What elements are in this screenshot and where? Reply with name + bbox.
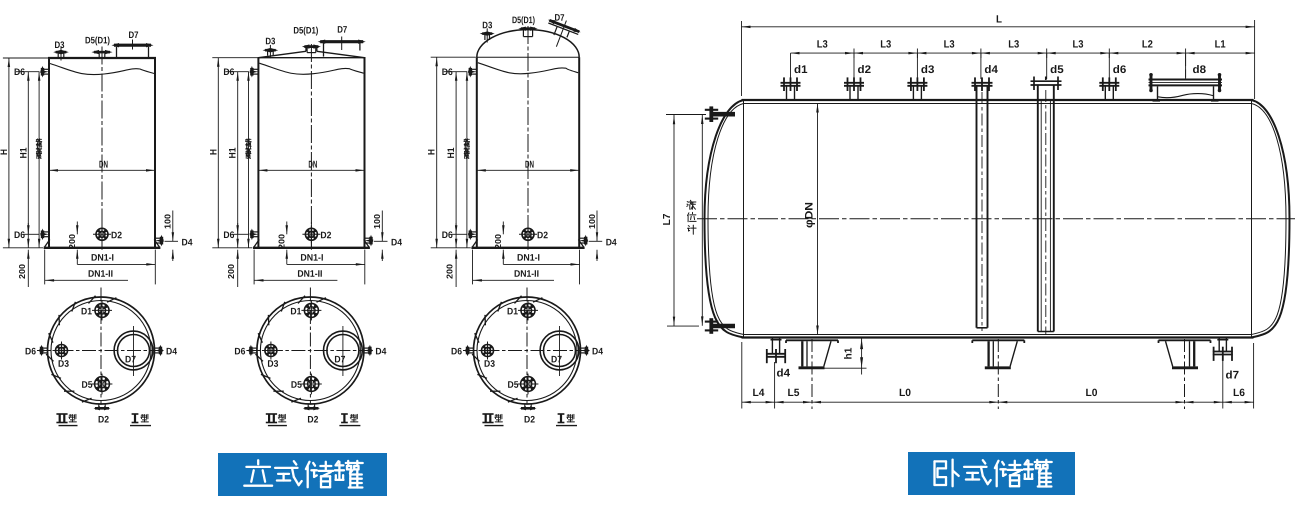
tank3 dim 200 left: [445, 223, 458, 287]
tank3 dome head: [477, 30, 579, 58]
tank1 liquid level line: [50, 64, 154, 75]
svg-text:D2: D2: [307, 414, 318, 425]
tank1 label D5(D1): [85, 35, 110, 46]
hz-tank seam right: [1251, 100, 1253, 338]
svg-text:d2: d2: [857, 64, 871, 76]
tank3 dim DN1-I: [503, 253, 579, 266]
svg-text:H1: H1: [18, 147, 29, 159]
hz-tank label d5: [1050, 64, 1064, 76]
tank1 label D6 lower: [14, 230, 25, 241]
tank2 nozzle D3: [263, 45, 279, 58]
tank2 plan label D2: [307, 414, 318, 425]
svg-text:D1: D1: [507, 306, 519, 317]
tank2 leader D6 upper: [225, 71, 249, 73]
tank1 plan label D1: [81, 306, 93, 317]
hz-tank dim extension lines to nozzles: [791, 53, 1186, 79]
tank2 centreline: [310, 44, 312, 250]
svg-text:d1: d1: [794, 64, 808, 76]
tank1 dim 200 left: [17, 223, 30, 287]
hz-tank shell top: [742, 100, 1254, 104]
tank3 nozzle D2: [519, 222, 537, 247]
hz-tank dim L7: [662, 115, 675, 326]
tank2 nozzle D4: [365, 235, 374, 247]
tank1 nozzle D5(D1): [92, 50, 113, 58]
tank3 filling-height text: [464, 139, 470, 159]
hz-tank seam left: [743, 100, 745, 338]
caption vertical storage tank: [218, 453, 387, 496]
tank1 label D7: [128, 30, 138, 41]
svg-text:DN1-I: DN1-I: [300, 253, 323, 264]
svg-text:100: 100: [587, 214, 597, 229]
svg-text:D5: D5: [507, 380, 519, 391]
svg-text:D7: D7: [334, 354, 345, 365]
hz-tank dim L: [742, 13, 1255, 28]
tank2 plan label D7: [334, 354, 345, 365]
tank1 plan nozzle D4: [155, 345, 163, 357]
hz-tank label L5: [787, 387, 799, 399]
svg-text:H: H: [0, 149, 10, 155]
tank1 label D6 upper: [14, 67, 25, 78]
tank2 dim H extension lines: [212, 58, 257, 248]
hz-tank left head: [705, 100, 744, 338]
tank1 dim DN1-II: [45, 269, 128, 282]
tank2 bottom skirt: [253, 240, 370, 248]
svg-text:DN: DN: [99, 160, 108, 171]
hz-tank nozzle d5 flange: [1031, 77, 1062, 91]
hz-tank nozzle d3: [907, 77, 927, 100]
tank3 plan shell: [474, 297, 581, 404]
tank2 shell walls: [258, 58, 364, 248]
svg-text:L3: L3: [944, 38, 955, 50]
tank1 plan label D5: [81, 380, 93, 391]
tank1 plan nozzle D6: [39, 345, 47, 357]
tank1 filling-height text: [36, 139, 42, 159]
hz-tank dim L extension lines: [742, 20, 1255, 99]
tank2 manhole D7: [318, 37, 366, 57]
svg-text:D4: D4: [166, 346, 178, 357]
tank1 dim extension lines bottom: [45, 250, 156, 285]
svg-text:D6: D6: [442, 67, 453, 78]
svg-text:D2: D2: [111, 230, 122, 241]
tank1 plan nozzle D2: [94, 404, 111, 411]
tank3 dim DN: [477, 160, 579, 172]
svg-text:L2: L2: [1142, 38, 1153, 50]
svg-text:D7: D7: [125, 354, 136, 365]
tank2 plan nozzle D6: [249, 345, 257, 357]
svg-text:L3: L3: [1072, 38, 1083, 50]
tank1 plan manhole D7: [114, 326, 153, 376]
svg-text:200: 200: [445, 264, 455, 279]
tank3 liquid level line: [478, 63, 578, 74]
svg-text:d4: d4: [776, 368, 790, 380]
tank1 label D3: [54, 40, 64, 51]
svg-text:L5: L5: [787, 387, 799, 399]
svg-text:d5: d5: [1050, 64, 1064, 76]
tank2 label D5(D1): [293, 25, 318, 36]
svg-text:DN1-II: DN1-II: [514, 269, 539, 280]
tank3 centreline: [527, 26, 529, 250]
tank1 manhole D7: [112, 40, 154, 59]
svg-text:L3: L3: [1008, 38, 1019, 50]
tank3 dim H1: [446, 72, 457, 248]
tank3 nozzle D6 lower: [468, 229, 477, 241]
tank2 label D7: [337, 25, 347, 36]
tank3 leader D6 lower: [452, 233, 468, 235]
tank1 nozzle D2: [93, 222, 111, 247]
tank1 nozzle D4: [155, 235, 164, 247]
tank1 dim H extension lines: [3, 58, 48, 248]
svg-text:DN1-II: DN1-II: [88, 269, 113, 280]
svg-text:D1: D1: [81, 306, 93, 317]
svg-text:D6: D6: [14, 230, 25, 241]
tank3 plan nozzle D6: [465, 345, 473, 357]
tank1 dim filling-height line: [38, 72, 41, 248]
tank1 plan label D3: [58, 359, 69, 370]
tank2 dim filling-height line: [247, 72, 250, 248]
tank2 label D6 upper: [223, 67, 234, 78]
hz-tank shell bottom: [742, 335, 1254, 338]
tank2 plan centrelines: [246, 288, 373, 404]
tank1 nozzle D3: [53, 47, 69, 61]
hz-tank dip pipe at d5: [1038, 85, 1054, 334]
svg-text:H1: H1: [228, 147, 239, 159]
svg-text:D2: D2: [524, 414, 535, 425]
hz-tank dip pipe at d4: [977, 86, 988, 331]
tank2 plan label D3: [267, 359, 278, 370]
hz-tank right head: [1252, 100, 1290, 338]
svg-text:D5(D1): D5(D1): [85, 35, 110, 46]
tank2 plan manhole D7: [324, 326, 363, 376]
tank2 label D2: [320, 230, 331, 241]
hz-tank dim phiDN: [804, 104, 819, 335]
tank1 plan label D7: [125, 354, 136, 365]
svg-text:D4: D4: [606, 237, 618, 248]
tank1 dim DN1-I: [77, 253, 155, 266]
tank3 label type I: [556, 414, 577, 426]
tank3 plan label D7: [551, 354, 562, 365]
tank1 leader D4: [165, 240, 179, 242]
hz-tank saddle leg 3: [1159, 339, 1211, 409]
tank1 plan shell ticks: [46, 296, 116, 402]
svg-text:d6: d6: [1113, 64, 1127, 76]
tank1 dim 100: [163, 211, 175, 262]
tank2 liquid level line: [259, 63, 363, 74]
svg-text:L0: L0: [1085, 387, 1097, 399]
svg-text:100: 100: [163, 214, 173, 229]
tank3 plan nozzle D5: [518, 374, 539, 395]
svg-text:D3: D3: [484, 359, 495, 370]
svg-text:DN1-II: DN1-II: [297, 269, 322, 280]
svg-text:200: 200: [67, 234, 77, 249]
hz-tank label d2: [857, 64, 871, 76]
hz-tank axis centreline: [697, 218, 1295, 220]
tank2 nozzle D6 lower: [250, 229, 259, 241]
tank2 filling-height text: [246, 139, 252, 159]
tank3 plan shell ticks: [472, 296, 542, 402]
tank3 dim extension lines bottom: [473, 250, 580, 285]
tank3 plan manhole D7: [540, 326, 579, 376]
tank2 leader D6 lower: [233, 233, 249, 235]
svg-text:D6: D6: [223, 230, 234, 241]
tank3 label D5(D1): [512, 15, 535, 26]
svg-text:D3: D3: [265, 36, 275, 47]
svg-text:D7: D7: [554, 13, 564, 24]
tank2 leader D4: [374, 240, 388, 242]
svg-text:200: 200: [226, 264, 236, 279]
tank3 label D3: [482, 20, 492, 31]
svg-text:D7: D7: [551, 354, 562, 365]
svg-text:D7: D7: [128, 30, 138, 41]
svg-text:d3: d3: [921, 64, 935, 76]
svg-text:L1: L1: [1215, 38, 1226, 50]
tank3 dim DN1-II: [473, 269, 554, 282]
tank1 dim H1: [18, 72, 29, 248]
svg-text:D3: D3: [267, 359, 278, 370]
svg-text:L0: L0: [899, 387, 911, 399]
tank1 plan centrelines: [37, 288, 164, 404]
tank2 nozzle D5(D1): [302, 44, 321, 52]
tank1 plan label D4: [166, 346, 178, 357]
hz-tank label d8: [1192, 64, 1206, 76]
tank2 plan nozzle D4: [364, 345, 372, 357]
tank3 dim H: [427, 57, 438, 248]
svg-text:D6: D6: [25, 346, 36, 357]
svg-text:D3: D3: [482, 20, 492, 31]
tank2 plan nozzle D1: [301, 300, 321, 320]
svg-text:L6: L6: [1233, 387, 1245, 399]
svg-text:D2: D2: [537, 230, 548, 241]
tank1 nozzle D6 lower: [40, 229, 49, 241]
svg-text:L4: L4: [752, 387, 764, 399]
hz-tank level gauge tap lower: [705, 318, 735, 334]
tank3 dim H extension lines: [431, 57, 476, 248]
hz-tank manhole d8: [1149, 58, 1223, 101]
tank3 dim 100: [587, 211, 598, 262]
svg-text:D6: D6: [14, 67, 25, 78]
tank3 nozzle D3: [480, 28, 495, 42]
svg-text:D6: D6: [442, 230, 453, 241]
svg-text:d7: d7: [1225, 370, 1239, 382]
svg-text:100: 100: [372, 214, 382, 229]
svg-text:H: H: [208, 149, 219, 155]
svg-text:D6: D6: [234, 346, 245, 357]
tank3 label D6 upper: [442, 67, 453, 78]
tank3 plan label D4: [592, 346, 604, 357]
tank1 plan label D2: [98, 414, 109, 425]
tank2 dim DN: [258, 160, 364, 172]
tank2 plan nozzle D3: [262, 342, 280, 360]
tank2 plan label D4: [375, 346, 387, 357]
svg-text:D1: D1: [290, 306, 302, 317]
tank2 dim DN1-I: [287, 253, 365, 266]
tank3 shell walls: [477, 57, 579, 248]
tank3 plan centrelines: [463, 288, 590, 404]
svg-text:DN1-I: DN1-I: [91, 253, 114, 264]
svg-text:h1: h1: [844, 347, 855, 359]
hz-tank label L6: [1233, 387, 1245, 399]
tank2 label D4: [391, 237, 403, 248]
svg-text:D6: D6: [451, 346, 462, 357]
svg-text:D7: D7: [337, 25, 347, 36]
tank3 label D6 lower: [442, 230, 453, 241]
svg-text:L3: L3: [817, 38, 828, 50]
svg-text:H1: H1: [446, 147, 457, 159]
svg-text:L7: L7: [662, 213, 673, 225]
tank3 bottom skirt: [471, 240, 584, 248]
hz-tank saddle leg 2: [972, 339, 1024, 409]
hz-tank dim level gauge: [701, 115, 704, 326]
svg-text:DN: DN: [525, 160, 534, 171]
hz-tank dim h1: [824, 338, 867, 374]
tank1 label type II: [56, 414, 77, 426]
tank2 plan shell: [257, 297, 364, 404]
tank1 plan nozzle D5: [92, 374, 113, 395]
tank3 label D4: [606, 237, 618, 248]
tank3 plan nozzle D2: [520, 404, 537, 411]
hz-tank level gauge text: [687, 200, 696, 234]
svg-text:D3: D3: [58, 359, 69, 370]
svg-text:D2: D2: [320, 230, 331, 241]
tank2 dim 200 at D2: [277, 222, 288, 265]
tank3 leader D4: [589, 240, 603, 242]
hz-tank bottom nozzle d7: [1213, 338, 1233, 361]
svg-text:D5: D5: [81, 380, 93, 391]
tank3 plan nozzle D3: [479, 342, 497, 360]
tank1 dim H: [0, 58, 10, 248]
svg-text:φDN: φDN: [804, 202, 816, 228]
tank2 label type II: [266, 414, 287, 426]
tank3 dim filling-height line: [466, 72, 469, 248]
hz-tank nozzle d2: [844, 77, 864, 100]
tank2 dim H1: [228, 72, 239, 248]
tank3 plan label D3: [484, 359, 495, 370]
svg-text:D5(D1): D5(D1): [293, 25, 318, 36]
tank2 plan label D1: [290, 306, 302, 317]
tank3 label type II: [482, 414, 503, 426]
tank2 plan nozzle D2: [303, 404, 320, 411]
hz-tank level gauge tap upper: [705, 106, 735, 122]
tank3 dim 200 at D2: [493, 222, 504, 265]
svg-text:L3: L3: [880, 38, 891, 50]
svg-text:D6: D6: [223, 67, 234, 78]
tank2 label D6 lower: [223, 230, 234, 241]
svg-text:DN: DN: [308, 160, 317, 171]
tank1 leader D6 lower: [24, 233, 40, 235]
hz-tank nozzle d6: [1099, 77, 1119, 100]
svg-text:D4: D4: [391, 237, 403, 248]
tank1 label D4: [181, 237, 193, 248]
tank3 leader D6 upper: [444, 71, 468, 73]
tank2 dim 100: [372, 211, 384, 262]
tank1 dim 200 at D2: [67, 222, 78, 265]
tank1 plan nozzle D1: [92, 300, 112, 320]
hz-tank nozzle d1: [781, 77, 801, 100]
tank1 shell walls: [48, 58, 156, 248]
hz-tank label d6: [1113, 64, 1127, 76]
tank2 dim DN1-II: [255, 269, 338, 282]
tank1 plan label D6: [25, 346, 36, 357]
hz-tank saddle leg 1: [786, 339, 838, 409]
hz-tank label L4: [752, 387, 764, 399]
hz-tank bottom extension lines: [742, 342, 1254, 409]
svg-text:L: L: [996, 13, 1003, 25]
tank1 dim DN: [49, 160, 155, 172]
tank3 nozzle D7 (inclined): [540, 14, 583, 53]
tank2 cone roof: [257, 48, 365, 58]
svg-text:D3: D3: [54, 40, 64, 51]
svg-text:D5: D5: [291, 380, 303, 391]
tank3 plan label D5: [507, 380, 519, 391]
hz-tank bottom dim chain: [742, 401, 1254, 404]
tank2 plan shell ticks: [256, 296, 326, 402]
hz-tank label d1: [794, 64, 808, 76]
caption horizontal storage tank: [908, 452, 1075, 495]
svg-text:d8: d8: [1192, 64, 1206, 76]
tank3 label D7: [554, 13, 564, 24]
tank1 nozzle D6 upper: [40, 66, 49, 78]
tank1 label type I: [130, 414, 151, 426]
svg-text:d4: d4: [984, 64, 998, 76]
tank2 nozzle D6 upper: [250, 66, 259, 78]
svg-text:D4: D4: [592, 346, 604, 357]
hz-tank label d7: [1225, 370, 1239, 382]
tank3 plan nozzle D4: [581, 345, 589, 357]
tank3 plan label D2: [524, 414, 535, 425]
tank1 bottom skirt: [44, 240, 161, 248]
tank2 plan nozzle D5: [301, 374, 322, 395]
tank3 label D2: [537, 230, 548, 241]
tank2 dim extension lines bottom: [254, 250, 365, 285]
tank2 nozzle D2: [302, 222, 320, 247]
hz-tank nozzle d4 flange: [972, 77, 993, 100]
svg-text:D4: D4: [375, 346, 387, 357]
hz-tank bottom nozzle d4 drain: [766, 338, 786, 364]
hz-tank dim L7 extension lines: [666, 115, 706, 327]
tank2 label type I: [339, 414, 360, 426]
hz-tank label L0: [1085, 387, 1097, 399]
tank1 centreline: [101, 47, 103, 250]
svg-text:200: 200: [17, 264, 27, 279]
tank3 plan label D6: [451, 346, 462, 357]
svg-text:200: 200: [493, 234, 503, 249]
tank2 dim 200 left: [226, 223, 239, 287]
tank3 nozzle D4: [579, 235, 588, 247]
hz-tank dim labels L3/L2/L1: [817, 38, 1226, 50]
tank1 plan nozzle D3: [53, 342, 71, 360]
hz-tank label L0: [899, 387, 911, 399]
svg-text:H: H: [427, 149, 438, 155]
tank2 plan label D6: [234, 346, 245, 357]
svg-text:D2: D2: [98, 414, 109, 425]
tank3 nozzle D5(D1): [518, 27, 537, 37]
tank2 plan label D5: [291, 380, 303, 391]
tank3 nozzle D6 upper: [468, 66, 477, 78]
tank3 plan nozzle D1: [518, 300, 538, 320]
hz-tank label d4 drain: [776, 368, 790, 380]
hz-tank label d3: [921, 64, 935, 76]
tank3 plan label D1: [507, 306, 519, 317]
svg-text:DN1-I: DN1-I: [517, 253, 540, 264]
tank1 label D2: [111, 230, 122, 241]
svg-text:D5(D1): D5(D1): [512, 15, 535, 26]
tank2 label D3: [265, 36, 275, 47]
hz-tank label d4: [984, 64, 998, 76]
hz-tank dim chain row L3/L2/L1: [791, 49, 1255, 59]
tank2 dim H: [208, 58, 219, 248]
svg-text:200: 200: [277, 234, 287, 249]
tank1 plan shell: [48, 297, 155, 404]
tank1 leader D6 upper: [16, 71, 40, 73]
